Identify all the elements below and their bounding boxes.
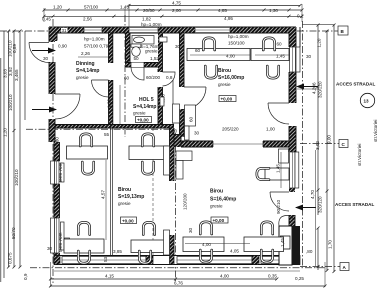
svg-text:4,75: 4,75 <box>172 1 181 6</box>
desk BL2 <box>129 146 168 160</box>
right dim line x334 <box>333 25 335 272</box>
svg-text:60: 60 <box>124 76 130 81</box>
bottom wall <box>54 256 300 265</box>
chair BR1a <box>200 222 211 234</box>
svg-text:1,20: 1,20 <box>317 38 322 47</box>
svg-text:20/50: 20/50 <box>143 8 155 13</box>
dim row B top <box>42 14 304 22</box>
dim row A top <box>43 5 304 13</box>
left dim line 3 <box>19 31 21 267</box>
cabinet BR left (vertical) <box>176 161 183 180</box>
svg-text:55: 55 <box>104 132 110 137</box>
WC toilet <box>131 44 141 56</box>
left wall lower <box>54 142 60 265</box>
svg-text:100/210: 100/210 <box>14 169 19 186</box>
door leaf+arc entrance Dinning (swings outside) <box>29 43 49 63</box>
radiator HOL <box>160 97 164 106</box>
svg-text:100/210: 100/210 <box>8 94 13 111</box>
svg-text:0,675: 0,675 <box>8 252 13 264</box>
svg-text:hp=1,00m: hp=1,00m <box>84 37 105 42</box>
svg-text:30: 30 <box>188 227 193 233</box>
strip room right wall (Birou16 left) <box>180 33 185 137</box>
svg-text:+0,00: +0,00 <box>137 118 149 123</box>
door leaf+arc entrance HOL (swings inside) <box>55 94 80 119</box>
svg-text:31: 31 <box>62 28 68 33</box>
svg-text:term 70m: term 70m <box>58 232 63 252</box>
desk TR2 <box>251 49 289 61</box>
svg-text:S=16,00mp: S=16,00mp <box>218 75 244 81</box>
svg-text:4,95: 4,95 <box>224 16 233 21</box>
chair BL2a <box>142 134 153 146</box>
svg-text:1,00: 1,00 <box>266 126 275 131</box>
svg-text:3,92: 3,92 <box>8 67 13 76</box>
leader to marker A <box>300 266 340 268</box>
desk BR2 <box>244 237 284 252</box>
svg-text:13: 13 <box>364 99 370 104</box>
svg-text:0,2: 0,2 <box>297 14 304 19</box>
strip room cabinet <box>173 104 180 123</box>
svg-text:57/100 0,79: 57/100 0,79 <box>84 44 109 49</box>
left wall upper <box>49 27 55 142</box>
window W1 top (Dinning) <box>84 27 102 33</box>
chair BL3a <box>78 222 89 234</box>
svg-text:+0,00: +0,00 <box>221 97 233 102</box>
svg-text:3,02: 3,02 <box>315 141 320 150</box>
svg-text:53: 53 <box>103 256 108 262</box>
svg-text:320/120: 320/120 <box>318 196 323 213</box>
svg-text:0,80: 0,80 <box>55 137 60 146</box>
svg-text:205/220: 205/220 <box>222 126 239 131</box>
svg-text:30: 30 <box>47 246 53 251</box>
svg-text:4,70: 4,70 <box>310 190 315 199</box>
cabinet BR right corner <box>279 149 289 163</box>
svg-text:90/210: 90/210 <box>276 200 281 214</box>
axis V mid (B) <box>175 133 177 283</box>
text Dinning <box>76 61 100 80</box>
svg-text:150/100: 150/100 <box>228 41 245 46</box>
cabinet left of partition <box>164 146 170 175</box>
junction wall piece <box>174 135 181 148</box>
chair BL1b <box>82 162 93 174</box>
svg-text:4,57: 4,57 <box>101 190 106 199</box>
svg-text:120/200: 120/200 <box>183 193 188 210</box>
scan edge line <box>0 58 2 282</box>
text Birou 19,13 <box>118 187 144 224</box>
svg-text:S=19,13mp: S=19,13mp <box>118 194 144 200</box>
svg-text:Birou: Birou <box>218 68 231 74</box>
svg-text:Birou: Birou <box>210 189 223 195</box>
top wall <box>49 27 296 33</box>
chair BR2b (tucked) <box>261 250 272 262</box>
svg-text:+0,00: +0,00 <box>122 219 134 224</box>
axis V left (1) <box>52 19 54 283</box>
svg-text:4,85: 4,85 <box>218 8 227 13</box>
right dim line x318 <box>317 228 319 270</box>
svg-text:0,9: 0,9 <box>23 273 28 280</box>
axis H middle-left <box>26 128 176 130</box>
label box left wall <box>58 162 72 252</box>
cabinet lower near partition <box>164 230 170 255</box>
svg-text:gresie: gresie <box>118 201 131 206</box>
svg-text:hp=1,00m: hp=1,00m <box>228 34 249 39</box>
svg-text:gresie: gresie <box>76 75 89 80</box>
cabinet BR top (horizontal) <box>176 151 192 161</box>
svg-text:1,20: 1,20 <box>107 99 112 108</box>
WC left wall <box>126 33 131 67</box>
svg-text:1,45: 1,45 <box>276 164 281 173</box>
door right lower (arc in) <box>270 192 289 211</box>
arrow entrance HOL <box>32 107 57 113</box>
extension lines top <box>44 4 302 27</box>
svg-text:HOL 5: HOL 5 <box>139 97 154 103</box>
door WC arc <box>131 67 144 80</box>
svg-text:320/220: 320/220 <box>318 81 323 98</box>
svg-text:3,465: 3,465 <box>14 69 19 81</box>
svg-text:ACCES STRADAL: ACCES STRADAL <box>335 202 374 207</box>
svg-text:1,45: 1,45 <box>280 238 285 247</box>
svg-text:4,00: 4,00 <box>202 242 211 247</box>
right dim line x318b <box>317 25 319 215</box>
svg-text:Birou: Birou <box>118 187 131 193</box>
radiator left 2 <box>61 222 65 250</box>
svg-text:2,00: 2,00 <box>172 8 181 13</box>
chair BL3b (tucked) <box>78 251 89 263</box>
svg-text:ACCES STRADAL: ACCES STRADAL <box>336 82 375 87</box>
WC small box <box>159 37 167 42</box>
svg-text:3,03: 3,03 <box>3 69 8 78</box>
glass line faint <box>152 128 154 256</box>
svg-text:gresie: gresie <box>133 111 146 116</box>
svg-text:3,85: 3,85 <box>113 249 122 254</box>
right wall <box>289 27 300 226</box>
text HOL <box>133 97 157 123</box>
left dim line 0 <box>3 31 5 278</box>
svg-text:,80: ,80 <box>306 249 313 254</box>
svg-text:50: 50 <box>134 56 140 61</box>
svg-text:0,8: 0,8 <box>166 75 173 80</box>
cabinet TR left2 <box>185 126 190 140</box>
arrow right lower <box>295 205 316 211</box>
arrow right upper <box>296 84 318 90</box>
bottom outer sill line <box>54 270 300 272</box>
bottom-right stair block <box>279 215 300 265</box>
chair TR2a <box>205 66 216 78</box>
axis V2 <box>124 15 126 137</box>
svg-text:S=16,40mp: S=16,40mp <box>210 196 236 202</box>
chair BL1a <box>80 134 91 146</box>
svg-text:2,56: 2,56 <box>83 17 92 22</box>
window W3 top (Birou 16,00) <box>195 27 230 33</box>
svg-text:1,52: 1,52 <box>150 56 159 61</box>
bottom wall pier 3 <box>252 256 259 265</box>
svg-text:hp=1,00m: hp=1,00m <box>141 22 162 27</box>
svg-text:0,35: 0,35 <box>268 274 277 279</box>
svg-text:30: 30 <box>175 44 181 49</box>
dim total 4,75 <box>128 1 302 8</box>
text WC <box>140 44 162 54</box>
svg-text:Dinning: Dinning <box>76 61 95 67</box>
left dim line 1 <box>8 31 10 267</box>
svg-text:30: 30 <box>43 56 49 61</box>
chair BR right <box>257 168 269 179</box>
door right upper (arc in) <box>268 103 289 124</box>
leader to marker C <box>300 143 339 145</box>
thin partition x111 <box>111 128 113 256</box>
svg-text:0,89: 0,89 <box>12 44 17 53</box>
desk TR1 <box>187 49 250 61</box>
door strip-Birou16 arc <box>184 87 206 109</box>
radiator left 1 <box>61 163 65 182</box>
marker A <box>340 263 349 271</box>
door HOL-strip arc <box>163 72 176 86</box>
bottom wall pier right <box>289 256 300 265</box>
svg-text:60/200: 60/200 <box>146 75 160 80</box>
window W2 top (WC) <box>129 27 158 33</box>
text Birou 16,00 <box>218 68 244 102</box>
window left lower 1 <box>51 161 60 184</box>
chair BR2a <box>261 222 272 234</box>
chair TR1b <box>263 38 274 50</box>
desk BL1 <box>67 146 108 159</box>
svg-text:4,00: 4,00 <box>220 274 229 279</box>
left dim line 2 <box>13 31 15 267</box>
door Dinning V1 (arc into dinning) <box>92 80 109 97</box>
bottom wall pier partition <box>170 256 175 265</box>
window left lower 2 <box>51 218 60 253</box>
svg-text:gresie: gresie <box>145 49 158 54</box>
arrow entrance Dinning <box>32 48 56 54</box>
chair TR1a <box>203 38 214 50</box>
HOL vertical dim line <box>119 85 121 124</box>
chair BR1b (tucked) <box>200 250 211 262</box>
wall V1 (Dinning right) <box>109 33 113 129</box>
leader to marker B <box>297 30 338 32</box>
HOL right wall (with door to strip room) <box>158 33 163 125</box>
svg-text:1,82: 1,82 <box>142 17 151 22</box>
WC sink counter <box>132 36 154 45</box>
window bottom 2 <box>177 257 252 264</box>
svg-text:1,70: 1,70 <box>328 240 333 249</box>
svg-text:str.Victoriei: str.Victoriei <box>357 144 362 166</box>
marker B <box>338 26 348 35</box>
svg-text:0,90: 0,90 <box>58 44 67 49</box>
svg-text:term 70m: term 70m <box>58 162 63 182</box>
cabinet TR left wall <box>185 105 196 126</box>
window right upper (Birou 16,00) <box>290 47 300 72</box>
svg-text:1,20: 1,20 <box>53 5 62 10</box>
svg-text:1,45: 1,45 <box>120 5 129 10</box>
extension lines bottom <box>50 262 52 287</box>
svg-text:60: 60 <box>189 116 194 122</box>
svg-text:S=4,14mp: S=4,14mp <box>133 104 157 110</box>
svg-text:9,00: 9,00 <box>327 135 332 144</box>
middle wall left <box>55 125 174 129</box>
marker C <box>339 140 348 148</box>
vertical interior dims <box>105 160 107 240</box>
svg-text:1,20: 1,20 <box>3 128 8 137</box>
chair BL4a <box>143 222 154 234</box>
svg-text:4,05: 4,05 <box>230 249 239 254</box>
chair BL4b (tucked) <box>139 251 150 263</box>
strip room divider line <box>172 80 174 125</box>
bottom wall pier 2 <box>146 256 153 265</box>
svg-text:1,30: 1,30 <box>269 8 278 13</box>
middle wall right <box>181 141 289 147</box>
svg-text:2,26: 2,26 <box>81 51 90 56</box>
chair TR2b <box>267 66 278 78</box>
text Birou 16,40 <box>210 189 236 224</box>
svg-text:0,25: 0,25 <box>295 276 304 281</box>
svg-text:1,45: 1,45 <box>276 54 285 59</box>
window bottom 3 <box>261 257 289 264</box>
desk BL4 <box>131 240 165 253</box>
svg-text:4,206: 4,206 <box>312 82 317 94</box>
svg-text:20: 20 <box>172 129 178 134</box>
WC bottom wall <box>126 63 163 68</box>
svg-text:50/70: 50/70 <box>11 227 16 239</box>
svg-text:60: 60 <box>195 48 201 53</box>
desk BL3 <box>64 239 104 253</box>
svg-text:gresie: gresie <box>218 82 231 87</box>
axis H bottom <box>30 267 326 269</box>
partition wall lower (hatched) <box>170 128 175 256</box>
left dim line 4 <box>24 31 26 120</box>
circle 13 <box>360 93 374 107</box>
svg-text:6,76: 6,76 <box>174 281 183 286</box>
axis V right (C) <box>302 21 304 268</box>
bottom dim row 2 <box>51 285 326 287</box>
desk BR1 <box>183 237 224 252</box>
svg-text:57/100: 57/100 <box>84 5 98 10</box>
svg-text:4,00: 4,00 <box>226 54 235 59</box>
svg-text:60: 60 <box>277 42 283 47</box>
right dim line x327 <box>326 31 328 271</box>
chair BL2b <box>142 162 153 174</box>
svg-text:S=4,14mp: S=4,14mp <box>76 68 100 74</box>
svg-text:gresie: gresie <box>210 204 223 209</box>
axis H top <box>0 30 52 32</box>
bottom dim row 1 <box>51 278 277 280</box>
desk BR right wall <box>265 168 289 180</box>
window bottom 1 <box>62 257 146 264</box>
svg-text:30: 30 <box>194 131 200 136</box>
top-left corner step <box>49 28 68 41</box>
bottom wall pier 1 <box>54 256 60 265</box>
window right lower <box>290 152 299 188</box>
svg-text:+0,00: +0,00 <box>213 218 225 223</box>
svg-text:4,15: 4,15 <box>105 274 114 279</box>
svg-text:30: 30 <box>306 54 312 59</box>
svg-text:str.Victoriei: str.Victoriei <box>373 120 378 142</box>
